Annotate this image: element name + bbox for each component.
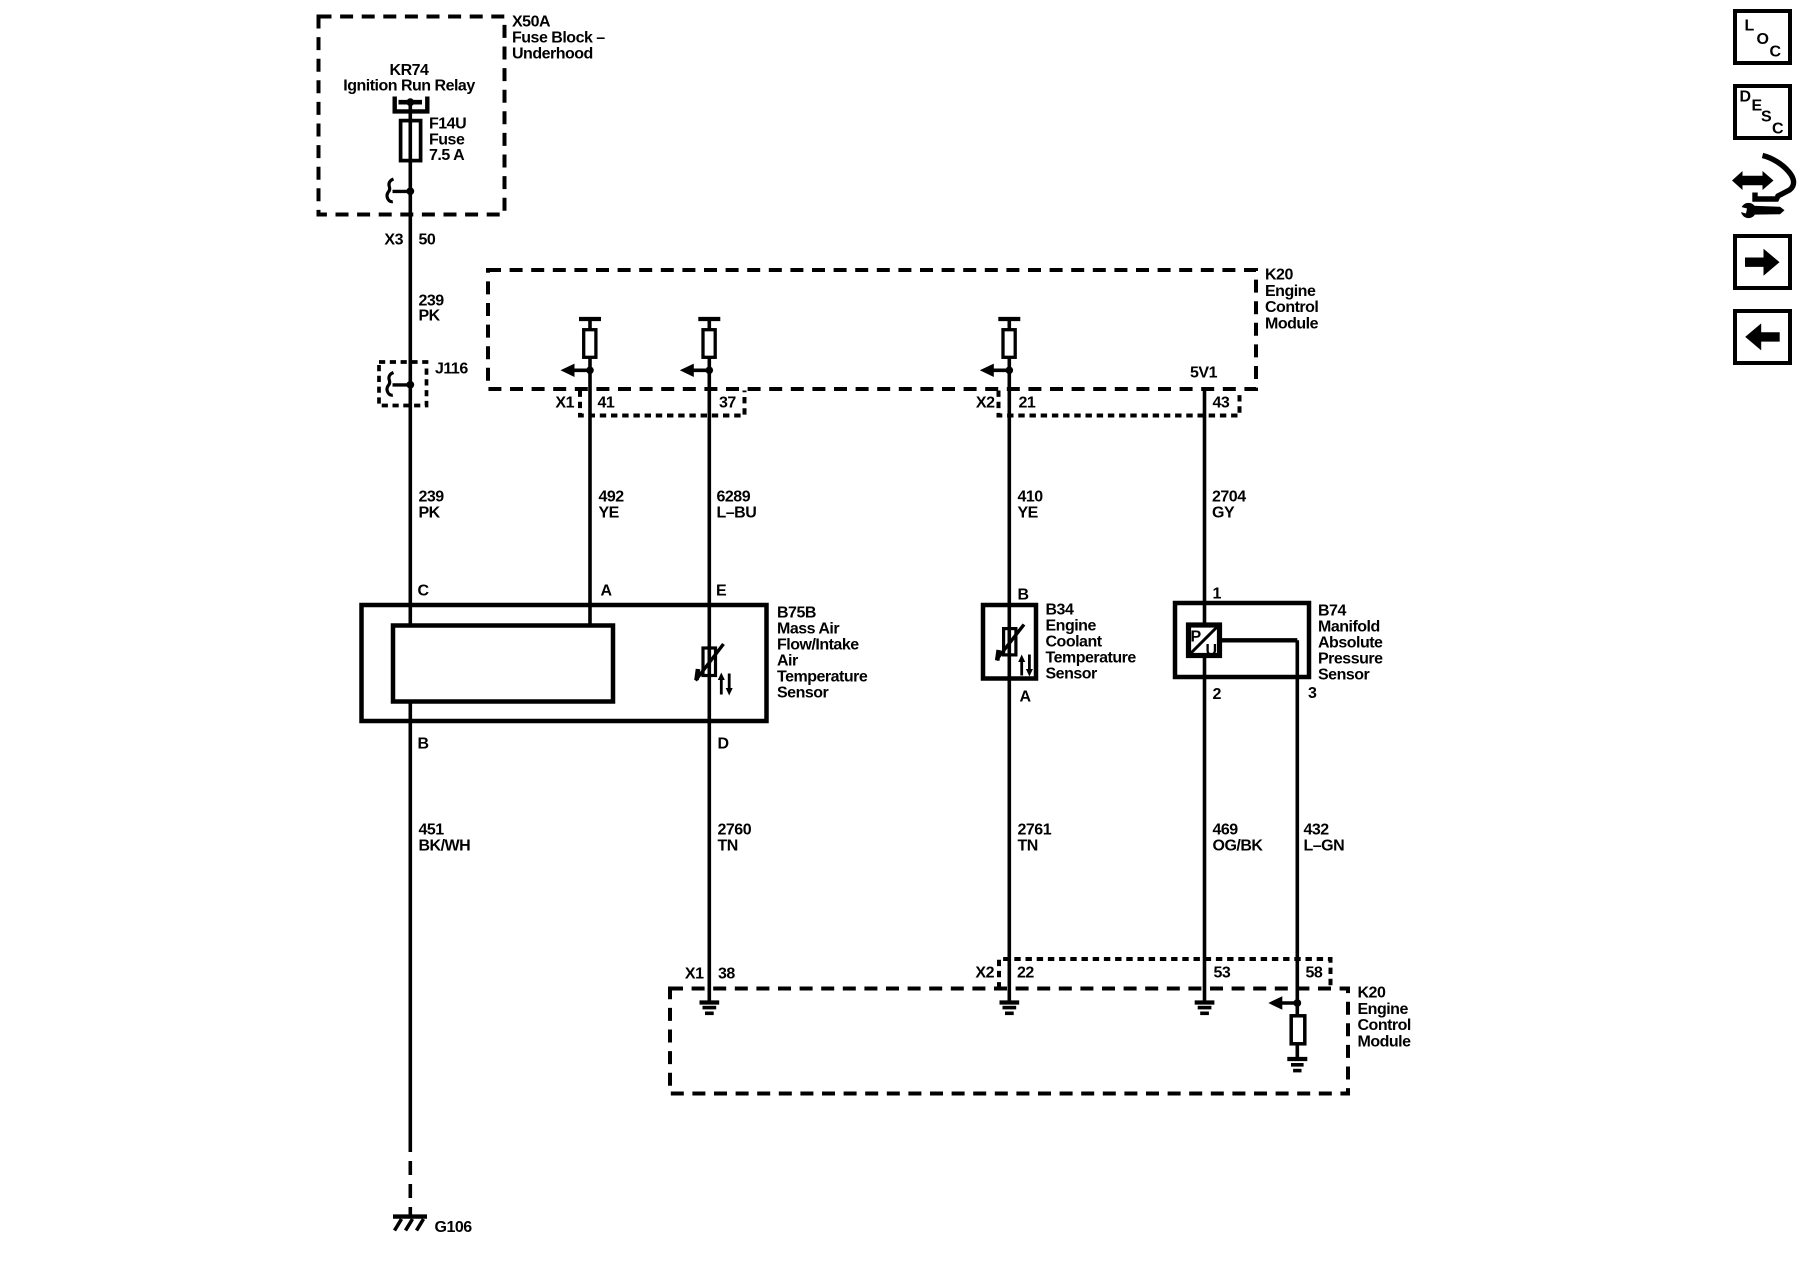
wire label 6289 L-BU — [717, 489, 757, 522]
label X50A Fuse Block Underhood — [512, 14, 605, 63]
wire label 2761 TN — [1018, 822, 1052, 855]
svg-text:TN: TN — [718, 838, 738, 855]
svg-text:Engine: Engine — [1358, 1001, 1409, 1018]
svg-text:38: 38 — [718, 966, 735, 983]
svg-text:432: 432 — [1304, 822, 1330, 839]
svg-text:B34: B34 — [1046, 602, 1074, 619]
svg-text:O: O — [1757, 31, 1769, 48]
ECT pin letters B A — [1018, 587, 1032, 706]
ECM K20 bottom dashed box — [670, 989, 1348, 1094]
wire 410 YE / 2761 TN — [1007, 319, 1011, 1001]
wire label 410 YE — [1018, 489, 1044, 522]
svg-text:L–GN: L–GN — [1304, 838, 1345, 855]
svg-text:Fuse: Fuse — [429, 131, 465, 148]
svg-text:5V1: 5V1 — [1190, 365, 1218, 382]
svg-text:239: 239 — [419, 489, 445, 506]
pin labels X2 22 53 58 bottom — [975, 965, 1322, 982]
svg-text:21: 21 — [1019, 395, 1036, 412]
svg-text:X1: X1 — [685, 966, 704, 983]
wire label 469 OG/BK — [1213, 822, 1264, 855]
wire 2704 GY / 469 OG-BK — [1203, 390, 1207, 1001]
svg-text:Module: Module — [1358, 1033, 1412, 1050]
svg-text:U: U — [1206, 642, 1217, 659]
svg-text:PK: PK — [419, 308, 441, 325]
svg-text:X2: X2 — [975, 965, 994, 982]
svg-text:C: C — [418, 583, 430, 600]
svg-text:A: A — [601, 583, 613, 600]
svg-text:Absolute: Absolute — [1318, 635, 1383, 652]
svg-text:K20: K20 — [1358, 985, 1386, 1002]
svg-text:Temperature: Temperature — [777, 669, 868, 686]
svg-text:469: 469 — [1213, 822, 1239, 839]
ECM K20 top dashed box — [488, 270, 1256, 389]
MAF pin letters B D — [418, 736, 729, 753]
connector X2 dotted box (bottom) — [999, 959, 1331, 989]
svg-text:451: 451 — [419, 822, 445, 839]
wire MAP output horizontal — [1220, 638, 1297, 642]
svg-text:492: 492 — [599, 489, 625, 506]
label B74 Manifold Absolute Pressure Sensor — [1318, 603, 1383, 684]
resistor in ECM pin 21 — [998, 319, 1020, 357]
svg-text:E: E — [716, 583, 727, 600]
svg-text:Sensor: Sensor — [1046, 666, 1098, 683]
label F14U Fuse 7.5 A — [429, 116, 466, 164]
svg-text:Module: Module — [1265, 315, 1319, 332]
icon LOC letters — [1745, 18, 1782, 61]
svg-text:43: 43 — [1213, 395, 1230, 412]
icon schematic curve outline — [1755, 156, 1794, 200]
svg-text:X50A: X50A — [512, 14, 551, 31]
connector X1 dotted box (top) — [580, 391, 745, 416]
pin labels X1 38 bottom — [685, 966, 735, 983]
icon forward arrow box — [1735, 236, 1790, 288]
svg-text:GY: GY — [1212, 505, 1235, 522]
svg-text:KR74: KR74 — [390, 62, 430, 79]
wire 6289 L-BU / 2760 TN — [707, 319, 711, 1001]
svg-text:J116: J116 — [435, 361, 468, 378]
svg-text:X2: X2 — [976, 395, 995, 412]
icon DESC letters — [1740, 89, 1785, 138]
svg-text:OG/BK: OG/BK — [1213, 838, 1264, 855]
svg-text:22: 22 — [1017, 965, 1034, 982]
wire 432 L-GN vertical — [1296, 640, 1300, 1057]
svg-text:X1: X1 — [555, 395, 574, 412]
wire label 492 YE — [599, 489, 625, 522]
wire 239 PK / 451 BK-WH main left vertical — [408, 101, 412, 626]
ground at ECM pin 38 — [700, 1003, 720, 1014]
svg-text:B75B: B75B — [777, 605, 816, 622]
icon schematic double-arrow — [1732, 171, 1774, 190]
svg-text:Engine: Engine — [1046, 618, 1097, 635]
label K20 Engine Control Module top — [1265, 267, 1319, 333]
svg-text:S: S — [1761, 109, 1772, 126]
svg-text:D: D — [1740, 89, 1751, 106]
up-down arrows at IAT thermistor — [718, 673, 733, 696]
svg-text:P: P — [1191, 629, 1202, 646]
svg-text:A: A — [1020, 689, 1032, 706]
svg-text:Mass Air: Mass Air — [777, 621, 839, 638]
wire label 2704 GY — [1212, 489, 1246, 522]
svg-text:50: 50 — [419, 232, 436, 249]
arrow at ECM pin 58 junction — [1268, 996, 1301, 1009]
svg-text:Temperature: Temperature — [1046, 650, 1137, 667]
label KR74 Ignition Run Relay — [343, 62, 475, 95]
icon DESC box — [1735, 86, 1790, 138]
svg-text:Sensor: Sensor — [777, 685, 829, 702]
wire 451 dashed segment to G106 — [408, 1152, 412, 1216]
MAF sensor B75B outer box — [362, 605, 767, 721]
wire label 239 PK lower — [419, 489, 445, 522]
svg-text:K20: K20 — [1265, 267, 1293, 284]
MAP P U letters — [1191, 629, 1217, 659]
thermistor in MAF (IAT) — [696, 644, 724, 681]
svg-text:410: 410 — [1018, 489, 1044, 506]
svg-text:53: 53 — [1214, 965, 1231, 982]
MAF pin letters C A E — [418, 583, 728, 600]
relay KR74 contact symbol — [395, 97, 428, 112]
wire label 432 L-GN — [1304, 822, 1345, 855]
svg-text:X3: X3 — [384, 232, 403, 249]
svg-text:TN: TN — [1018, 838, 1038, 855]
svg-text:Control: Control — [1358, 1017, 1411, 1034]
svg-text:Engine: Engine — [1265, 283, 1316, 300]
connector hook below fuse — [387, 179, 410, 202]
thermistor in ECT — [996, 625, 1024, 661]
label B34 Engine Coolant Temperature Sensor — [1046, 602, 1137, 683]
svg-text:B74: B74 — [1318, 603, 1346, 620]
svg-text:C: C — [1772, 121, 1784, 138]
svg-text:2761: 2761 — [1018, 822, 1052, 839]
svg-text:Coolant: Coolant — [1046, 634, 1103, 651]
icon wrench — [1737, 203, 1785, 218]
resistor in ECM pin 37 — [698, 319, 720, 357]
svg-text:D: D — [718, 736, 729, 753]
MAF sensor inner rectangle — [393, 626, 613, 702]
ground at ECM pin 22 — [1000, 1003, 1020, 1014]
MAP pin numbers 1 2 3 — [1213, 586, 1318, 704]
svg-text:3: 3 — [1308, 685, 1317, 702]
label K20 Engine Control Module bottom — [1358, 985, 1412, 1051]
svg-text:Underhood: Underhood — [512, 46, 593, 63]
svg-text:Manifold: Manifold — [1318, 619, 1380, 636]
connector X2 dotted box (top) — [999, 391, 1240, 416]
svg-text:Flow/Intake: Flow/Intake — [777, 637, 859, 654]
junction dot on relay contact — [406, 98, 414, 106]
wire label 2760 TN — [718, 822, 752, 855]
svg-text:Fuse Block –: Fuse Block – — [512, 30, 605, 47]
wire label 451 BK/WH — [419, 822, 471, 855]
label B75B Mass Air Flow/Intake Air Temperature Sensor — [777, 605, 868, 702]
svg-text:B: B — [418, 736, 429, 753]
splice J116 dashed box — [379, 362, 427, 406]
svg-text:2704: 2704 — [1212, 489, 1246, 506]
junction dot at J116 — [406, 381, 414, 389]
wire 451 BK/WH lower segment — [408, 700, 412, 1152]
wire 492 YE — [588, 319, 592, 626]
ground G106 chassis symbol — [393, 1217, 427, 1231]
svg-text:L–BU: L–BU — [717, 505, 757, 522]
wire label 239 PK upper — [419, 293, 445, 325]
arrow at pin 41 — [561, 364, 594, 377]
svg-text:G106: G106 — [435, 1219, 473, 1236]
ground inside ECM at pin 58 — [1287, 1059, 1307, 1071]
svg-text:1: 1 — [1213, 586, 1222, 603]
svg-text:Air: Air — [777, 653, 798, 670]
ECT sensor B34 box — [983, 605, 1036, 679]
svg-text:6289: 6289 — [717, 489, 751, 506]
pin labels X2 21 43 — [976, 395, 1230, 412]
fuse F14U — [401, 121, 421, 161]
svg-text:37: 37 — [719, 395, 736, 412]
svg-text:BK/WH: BK/WH — [419, 838, 471, 855]
svg-text:2760: 2760 — [718, 822, 752, 839]
svg-text:Sensor: Sensor — [1318, 667, 1370, 684]
svg-text:Ignition Run Relay: Ignition Run Relay — [343, 78, 475, 95]
icon back arrow box — [1735, 311, 1790, 363]
svg-text:L: L — [1745, 18, 1755, 35]
svg-text:41: 41 — [598, 395, 615, 412]
junction dot at hook — [406, 187, 414, 195]
svg-text:F14U: F14U — [429, 116, 466, 133]
resistor in ECM pin 41 — [579, 319, 601, 357]
svg-text:C: C — [1770, 43, 1782, 60]
svg-text:Control: Control — [1265, 299, 1318, 316]
splice J116 hook symbol — [387, 373, 410, 396]
fuse block X50A dashed box — [319, 17, 505, 215]
MAP P/U transducer box — [1189, 625, 1220, 656]
svg-text:YE: YE — [1018, 505, 1039, 522]
pin label X3 50 — [384, 232, 435, 249]
svg-text:Pressure: Pressure — [1318, 651, 1383, 668]
pin labels X1 41 37 — [555, 395, 736, 412]
arrow at pin 37 — [680, 364, 713, 377]
svg-text:YE: YE — [599, 505, 620, 522]
ground at ECM pin 53 — [1195, 1003, 1215, 1014]
svg-text:58: 58 — [1306, 965, 1323, 982]
svg-text:B: B — [1018, 587, 1029, 604]
icon LOC box — [1735, 11, 1790, 63]
svg-text:PK: PK — [419, 505, 441, 522]
svg-text:7.5 A: 7.5 A — [429, 147, 465, 164]
arrow at pin 21 — [980, 364, 1013, 377]
MAP sensor B74 box — [1175, 603, 1309, 677]
up-down arrows at ECT thermistor — [1018, 655, 1033, 677]
svg-text:2: 2 — [1213, 686, 1222, 703]
resistor inside ECM at pin 58 — [1291, 1016, 1305, 1044]
